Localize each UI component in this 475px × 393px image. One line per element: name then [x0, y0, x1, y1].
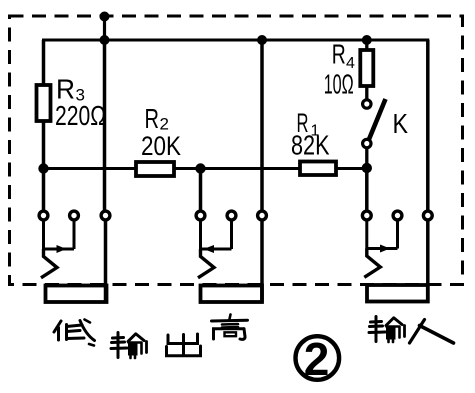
jack J2 contact link with arrow [201, 248, 232, 251]
switch K lever [369, 99, 386, 141]
svg-text:R: R [332, 39, 346, 70]
node (junction dot R2 lead / middle jack tip) [195, 163, 205, 173]
label R3 [55, 74, 106, 132]
wire (stub from border node down to top bus) [103, 17, 106, 41]
jack J2 plug outline [201, 286, 263, 303]
jack J1 break lead down [73, 220, 76, 249]
jack J3 tip spring [364, 249, 380, 278]
shield enclosure dashed border [10, 16, 463, 285]
jack J3 break contact circle [393, 211, 402, 220]
text CHU (of shuchu, output) hanzi [167, 334, 201, 356]
wire (second vertical rail) [103, 40, 107, 211]
jack J1 sleeve contact circle [101, 211, 110, 220]
svg-text:K: K [393, 108, 409, 139]
jack J3 contact link with arrow [367, 247, 398, 250]
label R4 [324, 39, 355, 100]
svg-text:R: R [145, 103, 160, 134]
jack J1 sleeve lead down [104, 220, 108, 302]
node (junction dot left rail / R2 wire) [38, 163, 48, 173]
jack J1 tip contact circle [39, 211, 48, 220]
resistor R1 body [300, 162, 336, 176]
resistor R3 body [37, 85, 51, 121]
jack J2 tip contact circle [196, 211, 205, 220]
jack J3 plug outline [367, 285, 428, 302]
wire (R4 top lead) [365, 40, 368, 50]
jack J2 sleeve lead down [260, 220, 264, 302]
jack J2 tip spring [198, 249, 214, 278]
wire (middle jack tip riser) [199, 169, 203, 212]
text RU (of shuru, input) hanzi [410, 320, 454, 344]
wire (switch pivot to junction) [365, 148, 368, 168]
text GAO (high) hanzi [212, 315, 248, 340]
node (junction dot top bus / middle rail) [257, 35, 267, 45]
jack J3 sleeve contact circle [423, 211, 432, 220]
wire (right rail, bus corner down to input jack sleeve circle) [426, 40, 430, 211]
wire (R1 right lead to switch node) [336, 167, 367, 170]
label R2 [141, 103, 181, 161]
node A (dot on top border) [100, 12, 110, 22]
jack J3 break lead down [396, 220, 399, 248]
jack J2 sleeve contact circle [258, 211, 267, 220]
svg-text:20K: 20K [141, 131, 181, 161]
jack J1 contact link with arrow [44, 248, 75, 251]
node (junction dot R1 / switch / right jack tip) [362, 163, 372, 173]
node (junction dot top bus / R4 branch) [362, 35, 372, 45]
wire (right jack tip riser) [365, 168, 369, 211]
jack J2 break contact circle [227, 211, 236, 220]
svg-text:220Ω: 220Ω [55, 100, 106, 131]
jack J1 plug outline [46, 286, 107, 303]
wire (horizontal R2-R1 wire, left rail to R2) [44, 167, 137, 170]
wire (left rail below R3 down to jack tip circle) [42, 121, 46, 211]
jack J3 tip contact circle [362, 211, 371, 220]
text DI (low) hanzi [54, 320, 95, 346]
text SHU (of shuru, input) hanzi [369, 317, 405, 343]
wire (R2 right lead to R1 left lead) [174, 167, 300, 170]
switch K pivot circle [363, 139, 371, 147]
jack J2 break lead down [230, 220, 233, 249]
wire (R4 bottom lead to switch top contact) [365, 86, 368, 100]
jack J3 sleeve lead down [426, 220, 430, 302]
text SHU (of shuchu, output) hanzi [111, 333, 147, 359]
svg-text:2: 2 [304, 333, 330, 385]
node (junction dot top bus / second rail) [100, 35, 110, 45]
wire (middle vertical rail) [260, 40, 264, 211]
svg-text:82K: 82K [291, 130, 330, 161]
resistor R4 body [360, 50, 373, 86]
jack J2 tip lead down [199, 220, 202, 249]
jack J1 tip spring [41, 249, 57, 278]
figure number 2 circled [296, 333, 340, 385]
wire (left rail top segment, bus corner down to R3) [42, 40, 46, 85]
jack J1 tip lead down [42, 220, 45, 249]
label R1 [291, 108, 330, 161]
jack J3 tip lead down [365, 220, 368, 248]
svg-text:10Ω: 10Ω [324, 69, 354, 100]
resistor R2 body [136, 162, 174, 176]
jack J1 break contact circle [70, 211, 79, 220]
wire (top bus, left corner to right corner) [42, 39, 429, 42]
switch K top contact circle [363, 100, 371, 108]
